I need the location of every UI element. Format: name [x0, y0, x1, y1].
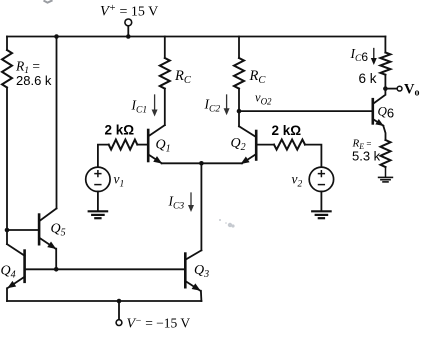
ground (v2): [312, 211, 330, 218]
node tail junction: [199, 161, 204, 166]
svg-text:vO2: vO2: [255, 91, 272, 107]
node junction top rail / Q5 collector: [54, 34, 59, 39]
wire 6k top from rail: [384, 37, 386, 53]
wire bottom rail V-: [7, 300, 201, 302]
transistor Q4: [5, 244, 24, 291]
wire RE to ground: [385, 167, 387, 177]
wire RC1 top: [164, 37, 166, 59]
terminal V-: [116, 320, 122, 326]
svg-text:RC: RC: [249, 68, 267, 86]
node V- junction: [117, 299, 122, 304]
stray scan mark top left: [44, 0, 53, 2]
svg-text:RC: RC: [174, 68, 192, 86]
svg-text:Q5: Q5: [51, 222, 66, 239]
svg-text:Q2: Q2: [231, 136, 246, 153]
svg-text:IC3: IC3: [168, 194, 185, 212]
wire Vo node to output terminal: [385, 88, 397, 90]
wire top rail V+: [7, 36, 385, 38]
wire tail down to Q3 collector: [200, 163, 202, 250]
node mirror base junction: [54, 267, 59, 272]
wire mirror base rail Q4 to Q3: [25, 268, 186, 270]
svg-text:V− = −15 V: V− = −15 V: [127, 316, 191, 332]
svg-text:28.6 k: 28.6 k: [16, 73, 52, 88]
transistor Q5: [39, 208, 58, 251]
wire 2k to v2: [305, 145, 321, 167]
wire Q3 emitter to bottom rail: [200, 291, 203, 301]
terminal Vo: [397, 86, 402, 91]
svg-text:Vo: Vo: [404, 82, 419, 99]
wire emitter bus Q1-Q2: [162, 162, 242, 164]
wire v1 to ground: [97, 192, 99, 212]
wire V- terminal stem: [118, 301, 120, 320]
source v2: [309, 167, 333, 191]
svg-text:Q4: Q4: [1, 264, 16, 281]
wire RC2 top: [238, 37, 240, 59]
source v1: [86, 167, 110, 191]
wire vO2 to Q6 base: [239, 110, 373, 112]
wire Q2 base to resistor: [256, 144, 274, 146]
faint scan specks: [219, 219, 235, 228]
svg-text:5.3 k: 5.3 k: [352, 149, 381, 164]
wire V+ terminal stem: [127, 26, 129, 37]
wire left column from rail to R1: [6, 37, 8, 51]
wire 6k bottom to Vo node: [384, 75, 386, 94]
resistor 2k (left, base Q1): [109, 140, 138, 150]
node junction V+ on rail: [126, 34, 131, 39]
ground (v1): [89, 211, 107, 218]
wire Q6 emitter to RE: [383, 126, 385, 140]
svg-text:Q6: Q6: [378, 104, 395, 121]
current arrow IC3: [188, 193, 194, 212]
wire v1 to 2k resistor: [98, 145, 109, 167]
transistor Q1: [148, 125, 165, 166]
node vO2 junction: [237, 109, 242, 114]
wire R1 bottom down to Q5 base node: [6, 88, 8, 245]
svg-text:Q1: Q1: [156, 138, 171, 155]
wire Q1 base to resistor: [137, 144, 148, 146]
svg-text:v1: v1: [114, 172, 125, 190]
resistor R1: [2, 50, 12, 87]
svg-text:IC2: IC2: [204, 97, 221, 115]
transistor Q2: [239, 126, 256, 167]
terminal V+: [125, 19, 132, 26]
wire Q5 base from left column: [7, 229, 39, 231]
ground (RE): [379, 177, 393, 182]
node R1/Q5 base junction: [5, 228, 10, 233]
svg-text:2 kΩ: 2 kΩ: [272, 123, 302, 138]
svg-text:Q3: Q3: [194, 263, 209, 280]
current arrow IC2: [224, 95, 230, 115]
wire Q5 collector column: [56, 37, 58, 209]
svg-text:V+ = 15 V: V+ = 15 V: [100, 3, 158, 20]
current arrow IC1: [152, 95, 158, 117]
wire Q4 emitter down to bottom rail: [6, 288, 8, 301]
resistor RE 5.3k: [381, 140, 391, 167]
wire Q5 emitter down to mirror base rail: [55, 249, 57, 270]
wire v2 to ground: [320, 192, 322, 212]
resistor RC2: [234, 58, 244, 89]
resistor 2k (right, base Q2): [274, 140, 305, 150]
svg-text:2 kΩ: 2 kΩ: [105, 123, 135, 138]
resistor RC1: [160, 58, 170, 89]
svg-text:v2: v2: [292, 172, 303, 190]
wire RC2 bottom through node vO2 to Q2 collector: [238, 89, 240, 127]
svg-text:IC1: IC1: [131, 98, 148, 116]
svg-text:IC6: IC6: [350, 46, 369, 64]
transistor Q6: [373, 95, 386, 129]
transistor Q3: [185, 250, 202, 293]
resistor 6k: [380, 53, 390, 75]
node Vo junction: [383, 86, 388, 91]
svg-text:6 k: 6 k: [359, 71, 377, 86]
wire RC1 bottom to Q1 collector: [164, 89, 166, 126]
current arrow IC6: [371, 49, 377, 66]
